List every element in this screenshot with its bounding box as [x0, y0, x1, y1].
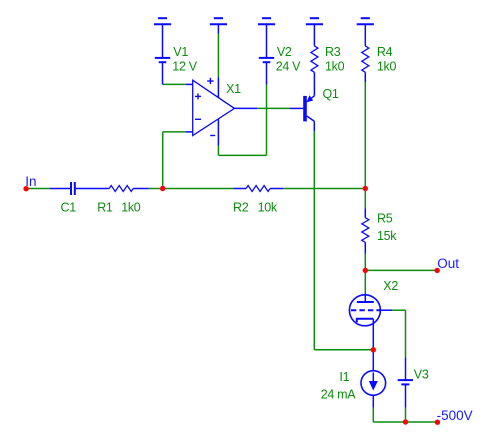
- svg-text:R2: R2: [233, 201, 249, 215]
- svg-text:V1: V1: [173, 45, 188, 59]
- svg-text:24 mA: 24 mA: [321, 387, 357, 401]
- svg-text:Out: Out: [437, 256, 459, 271]
- svg-text:V3: V3: [414, 367, 429, 381]
- svg-text:R4: R4: [377, 45, 393, 59]
- svg-text:24 V: 24 V: [276, 59, 301, 73]
- svg-text:I1: I1: [339, 370, 349, 384]
- svg-text:1k0: 1k0: [377, 59, 397, 73]
- svg-text:Q1: Q1: [323, 87, 339, 101]
- svg-text:R3: R3: [325, 45, 341, 59]
- svg-text:R5: R5: [377, 212, 393, 226]
- svg-text:15k: 15k: [377, 229, 397, 243]
- svg-text:In: In: [25, 174, 36, 189]
- svg-text:X2: X2: [383, 279, 398, 293]
- svg-text:12 V: 12 V: [172, 59, 197, 73]
- svg-text:1k0: 1k0: [325, 59, 345, 73]
- svg-text:V2: V2: [277, 45, 292, 59]
- svg-text:C1: C1: [61, 201, 77, 215]
- svg-text:10k: 10k: [258, 201, 278, 215]
- svg-text:1k0: 1k0: [121, 201, 141, 215]
- svg-text:X1: X1: [226, 82, 241, 96]
- svg-text:-500V: -500V: [437, 408, 473, 423]
- svg-text:R1: R1: [97, 201, 113, 215]
